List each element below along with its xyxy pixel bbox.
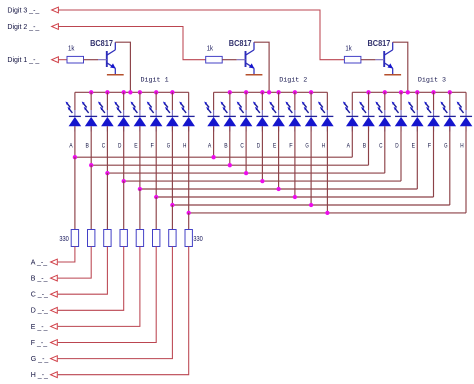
svg-text:D: D — [395, 142, 399, 149]
svg-text:F: F — [289, 142, 292, 149]
svg-text:H: H — [183, 142, 187, 149]
svg-text:B _-_: B _-_ — [31, 276, 48, 283]
svg-text:C: C — [102, 142, 106, 149]
svg-text:1k: 1k — [207, 45, 214, 52]
svg-text:BC817: BC817 — [229, 39, 252, 48]
svg-text:A: A — [69, 142, 73, 149]
svg-text:C: C — [240, 142, 244, 149]
svg-text:1k: 1k — [68, 45, 75, 52]
svg-text:G: G — [444, 142, 447, 149]
svg-text:D: D — [118, 142, 122, 149]
svg-text:H: H — [460, 142, 464, 149]
svg-text:E: E — [273, 142, 277, 149]
svg-text:Digit 1: Digit 1 — [141, 77, 169, 85]
svg-text:E: E — [412, 142, 416, 149]
svg-text:Digit 3: Digit 3 — [418, 77, 446, 85]
svg-text:G: G — [305, 142, 308, 149]
svg-text:330: 330 — [193, 234, 202, 243]
svg-text:F: F — [151, 142, 154, 149]
svg-text:Digit 2 _-_: Digit 2 _-_ — [7, 24, 39, 31]
svg-text:H: H — [322, 142, 326, 149]
svg-text:B: B — [363, 142, 366, 149]
svg-text:E: E — [134, 142, 138, 149]
svg-text:Digit 3 _-_: Digit 3 _-_ — [7, 7, 39, 14]
svg-text:BC817: BC817 — [90, 39, 113, 48]
svg-text:C: C — [379, 142, 383, 149]
svg-text:D _-_: D _-_ — [31, 308, 48, 315]
svg-text:A _-_: A _-_ — [31, 259, 47, 266]
svg-text:E _-_: E _-_ — [31, 324, 48, 331]
svg-text:A: A — [347, 142, 351, 149]
svg-text:BC817: BC817 — [368, 39, 391, 48]
svg-text:B: B — [86, 142, 89, 149]
svg-text:C _-_: C _-_ — [31, 292, 48, 299]
svg-text:A: A — [208, 142, 212, 149]
svg-text:1k: 1k — [345, 45, 352, 52]
svg-text:B: B — [224, 142, 227, 149]
svg-text:Digit 2: Digit 2 — [279, 77, 307, 85]
svg-text:F: F — [428, 142, 431, 149]
svg-text:F _-_: F _-_ — [31, 340, 47, 347]
svg-text:330: 330 — [59, 234, 68, 243]
svg-text:Digit 1 _-_: Digit 1 _-_ — [7, 57, 39, 64]
svg-text:G: G — [167, 142, 170, 149]
svg-text:H _-_: H _-_ — [31, 372, 48, 379]
svg-text:D: D — [257, 142, 261, 149]
svg-text:G _-_: G _-_ — [31, 356, 49, 363]
